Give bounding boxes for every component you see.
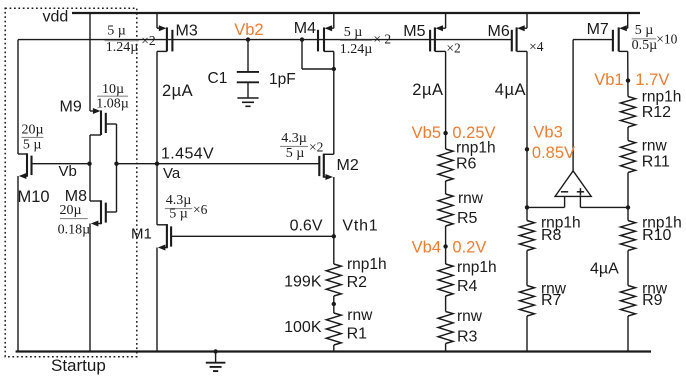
svg-text:R9: R9 [642,292,663,309]
svg-text:C1: C1 [208,70,228,87]
svg-text:M5: M5 [403,23,425,40]
svg-text:rnp1h: rnp1h [456,140,496,157]
svg-text:rnp1h: rnp1h [457,259,497,276]
svg-text:R4: R4 [457,278,478,295]
svg-text:vdd: vdd [43,8,69,25]
svg-text:M6: M6 [488,23,510,40]
svg-text:R11: R11 [642,154,670,171]
svg-text:4.3µ: 4.3µ [281,131,307,146]
svg-text:10µ: 10µ [102,82,124,97]
svg-text:Vth1: Vth1 [342,218,378,235]
svg-text:Vb1: Vb1 [594,71,623,89]
svg-text:2µA: 2µA [162,82,193,100]
svg-text:20µ: 20µ [59,203,81,218]
svg-text:5 µ: 5 µ [344,25,363,40]
svg-text:5 µ: 5 µ [107,24,126,39]
svg-text:×10: ×10 [656,32,677,47]
svg-text:100K: 100K [284,319,322,336]
svg-text:M7: M7 [587,21,609,38]
svg-text:R5: R5 [457,210,478,227]
svg-text:M1: M1 [131,226,152,243]
svg-text:0.2V: 0.2V [452,239,486,257]
svg-text:R10: R10 [642,227,671,244]
svg-text:rnw: rnw [642,138,668,155]
svg-text:×2: ×2 [446,40,460,55]
svg-text:5 µ: 5 µ [23,138,42,153]
svg-text:rnw: rnw [457,308,483,325]
svg-text:1.454V: 1.454V [161,146,214,163]
svg-text:M2: M2 [337,157,359,174]
svg-text:4µA: 4µA [495,81,526,99]
svg-text:M3: M3 [176,22,198,39]
svg-text:rnp1h: rnp1h [347,256,387,273]
svg-text:× 2: × 2 [373,31,391,46]
svg-text:1.24µ: 1.24µ [106,40,139,55]
svg-text:×2: ×2 [309,140,323,155]
svg-text:5 µ: 5 µ [169,207,188,222]
svg-text:×4: ×4 [529,39,544,54]
svg-text:1.24µ: 1.24µ [340,42,373,57]
svg-text:0.5µ: 0.5µ [632,38,658,53]
svg-text:0.18µ: 0.18µ [58,223,91,238]
svg-text:×2: ×2 [141,33,155,48]
svg-text:20µ: 20µ [21,122,43,137]
svg-text:M10: M10 [18,188,50,206]
svg-text:R12: R12 [642,104,671,121]
svg-text:1pF: 1pF [269,71,296,88]
svg-text:2µA: 2µA [412,81,443,99]
svg-text:199K: 199K [284,274,322,291]
svg-text:Vb5: Vb5 [412,124,441,142]
svg-text:R1: R1 [347,326,368,343]
svg-text:×6: ×6 [193,202,208,217]
svg-text:0.6V: 0.6V [290,218,323,235]
svg-text:Vb2: Vb2 [234,21,263,39]
svg-text:R2: R2 [347,274,368,291]
svg-text:5 µ: 5 µ [286,146,305,161]
svg-text:1.08µ: 1.08µ [96,97,129,112]
svg-text:M4: M4 [294,20,316,37]
svg-text:1.7V: 1.7V [635,71,669,89]
svg-text:Startup: Startup [51,356,106,375]
svg-text:5 µ: 5 µ [635,23,654,38]
svg-text:R8: R8 [541,227,562,244]
svg-text:rnp1h: rnp1h [642,89,682,106]
svg-text:M9: M9 [60,99,82,116]
svg-text:R3: R3 [457,329,478,346]
svg-text:R7: R7 [541,292,562,309]
svg-text:rnw: rnw [347,307,373,324]
svg-text:Va: Va [163,165,181,182]
svg-text:rnw: rnw [458,190,484,207]
svg-text:Vb3: Vb3 [533,124,562,142]
svg-text:Vb: Vb [59,163,77,180]
svg-text:4µA: 4µA [590,261,619,278]
svg-text:R6: R6 [456,156,477,173]
svg-text:0.85V: 0.85V [532,144,575,162]
svg-text:Vb4: Vb4 [412,239,441,257]
